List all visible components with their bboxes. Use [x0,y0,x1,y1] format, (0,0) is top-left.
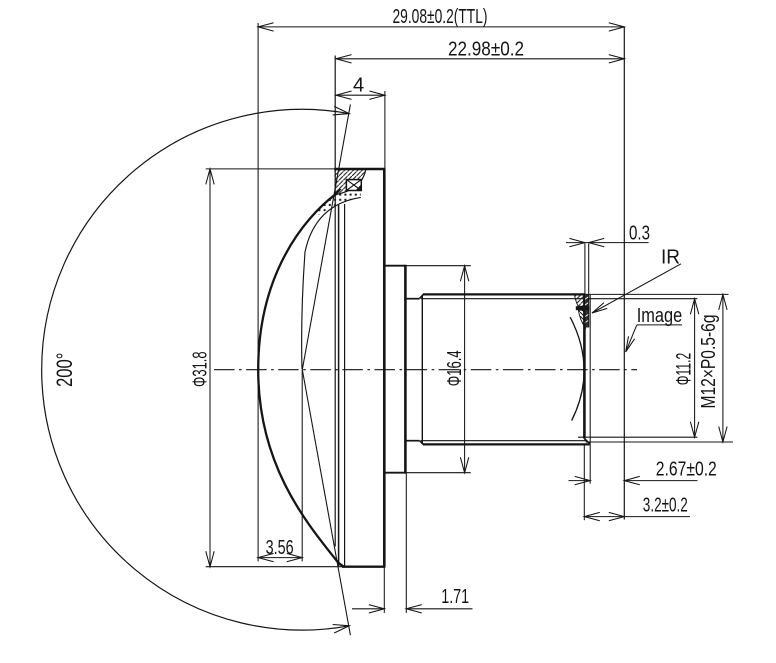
collar right face [404,265,407,474]
dimension 2.67 [569,476,698,484]
svg-text:Φ16.4: Φ16.4 [444,350,466,386]
dimension phi11.2 [690,299,698,438]
front retainer boundary curve [336,170,366,195]
thread root line top with phi11.2 extension [421,298,697,300]
extension line flange rear for 4 dim [384,91,386,169]
svg-text:M12×P0.5-6g: M12×P0.5-6g [698,315,720,409]
IR filter crosshatched [585,295,590,328]
svg-text:29.08±0.2(TTL): 29.08±0.2(TTL) [393,6,488,28]
dimension phi31.8 [206,169,214,567]
svg-text:IR: IR [661,246,680,268]
front retainer hatched section [334,170,366,195]
barrel outer diameter top [423,293,586,295]
optical axis center line [214,369,637,371]
image plane line [623,27,625,520]
dimension 4 [336,91,385,99]
svg-text:Image: Image [637,305,683,327]
extension line phi16.4 bottom [406,472,471,474]
extension line flange right below [383,567,385,613]
extension line IR rear [588,244,590,328]
dimension 1.71 [352,605,473,613]
barrel rear face [583,295,586,439]
svg-text:1.71: 1.71 [441,586,469,608]
label Image with leader [626,325,682,352]
collar bottom edge [384,472,405,474]
svg-text:22.98±0.2: 22.98±0.2 [448,38,524,60]
flange front face lines [334,56,336,547]
barrel outer diameter bottom [423,443,590,445]
svg-text:3.2±0.2: 3.2±0.2 [643,495,688,517]
rear element spacer black band [576,306,589,310]
thread start line [421,295,423,444]
svg-text:2.67±0.2: 2.67±0.2 [656,459,717,481]
extension line IR front [584,244,586,295]
FOV ray lower [302,370,350,636]
dome lens outer surface [258,194,344,567]
extension line rear face below [583,444,585,520]
flange right face [383,169,386,567]
flange bottom edge [342,566,385,568]
barrel front chamfer top [420,294,424,298]
thread relief groove bottom [405,440,419,442]
extension line dome vertex [257,23,259,561]
retainer tip thick mark [335,189,341,195]
svg-text:Φ11.2: Φ11.2 [672,353,695,386]
svg-text:200°: 200° [52,353,77,388]
svg-text:Φ31.8: Φ31.8 [190,351,212,387]
dimension 22.98 [336,55,624,63]
rear lens element lower dark part [578,310,585,328]
dimension M12xP0.5-6g [719,294,727,442]
dimension 29.08 TTL [258,23,624,31]
svg-text:0.3: 0.3 [629,223,650,245]
rear lens concave surface [570,317,584,420]
svg-text:4: 4 [353,75,364,97]
extension line phi31.8 bottom [206,566,342,568]
200 degree field-of-view arc [42,109,350,630]
extension line phi11.2 bottom [578,436,697,438]
flange top edge [334,168,385,170]
barrel front chamfer bottom [420,441,424,445]
rear lens element upper hatched part [575,295,585,306]
extension line entrance pupil [301,370,303,562]
extension line phi16.4 top [406,265,471,267]
dimension 3.2 [584,512,690,520]
barrel rear bottom chamfer [584,439,589,444]
extension line M12 top [586,293,729,295]
extension line collar right below [405,473,407,613]
label IR with leader [592,264,681,313]
arc top arrowhead [333,106,350,115]
extension line rear ring [589,295,591,484]
dimension phi16.4 [460,266,468,473]
extension line phi31.8 top [206,168,335,170]
collar top edge [384,265,405,267]
arc bottom arrowhead [333,625,350,634]
dome lens inner surface [302,197,361,369]
extension line M12 bottom [586,441,733,443]
dimension 3.56 [258,553,302,561]
front cement crosshatch square [346,180,361,191]
FOV ray upper [302,105,350,370]
thread root line bottom [421,440,586,442]
front element stipple glass section [317,190,361,216]
svg-text:3.56: 3.56 [266,537,294,559]
dimension 0.3 [566,238,649,246]
thread relief groove top [405,298,419,300]
